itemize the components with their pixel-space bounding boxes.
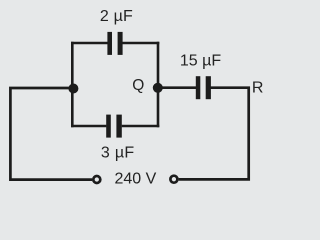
terminal circle right (240V source): [170, 176, 177, 183]
terminal circle left (240V source): [93, 176, 100, 183]
svg-text:R: R: [252, 79, 264, 96]
svg-text:15 µF: 15 µF: [180, 52, 221, 69]
wire: top branch right segment from 2uF capacitor: [122, 42, 159, 45]
capacitor C2 3uF (plates): [106, 115, 122, 138]
wire: left rail from middle row down and bottom wire to left terminal: [10, 88, 92, 180]
capacitor C3 15uF (plates): [196, 76, 211, 99]
svg-text:Q: Q: [132, 77, 144, 94]
wire: right inner rail of parallel section: [157, 42, 160, 128]
svg-text:2 µF: 2 µF: [100, 8, 133, 25]
svg-text:3 µF: 3 µF: [101, 144, 135, 161]
wire: from node Q right to 15uF left plate: [158, 86, 196, 89]
wire: from 15uF right plate to right rail and down to right terminal: [179, 88, 249, 180]
junction dot left node: [68, 84, 78, 94]
capacitor C1 2uF (plates): [107, 32, 122, 55]
wire: bottom branch left segment to 3uF capacitor: [71, 125, 106, 128]
wire: top branch left segment to 2uF capacitor: [71, 42, 108, 45]
wire: left inner rail of parallel section: [71, 42, 74, 128]
junction dot node Q: [153, 83, 163, 93]
wire: bottom branch right segment from 3uF capacitor: [122, 125, 160, 128]
svg-text:240 V: 240 V: [115, 171, 157, 188]
